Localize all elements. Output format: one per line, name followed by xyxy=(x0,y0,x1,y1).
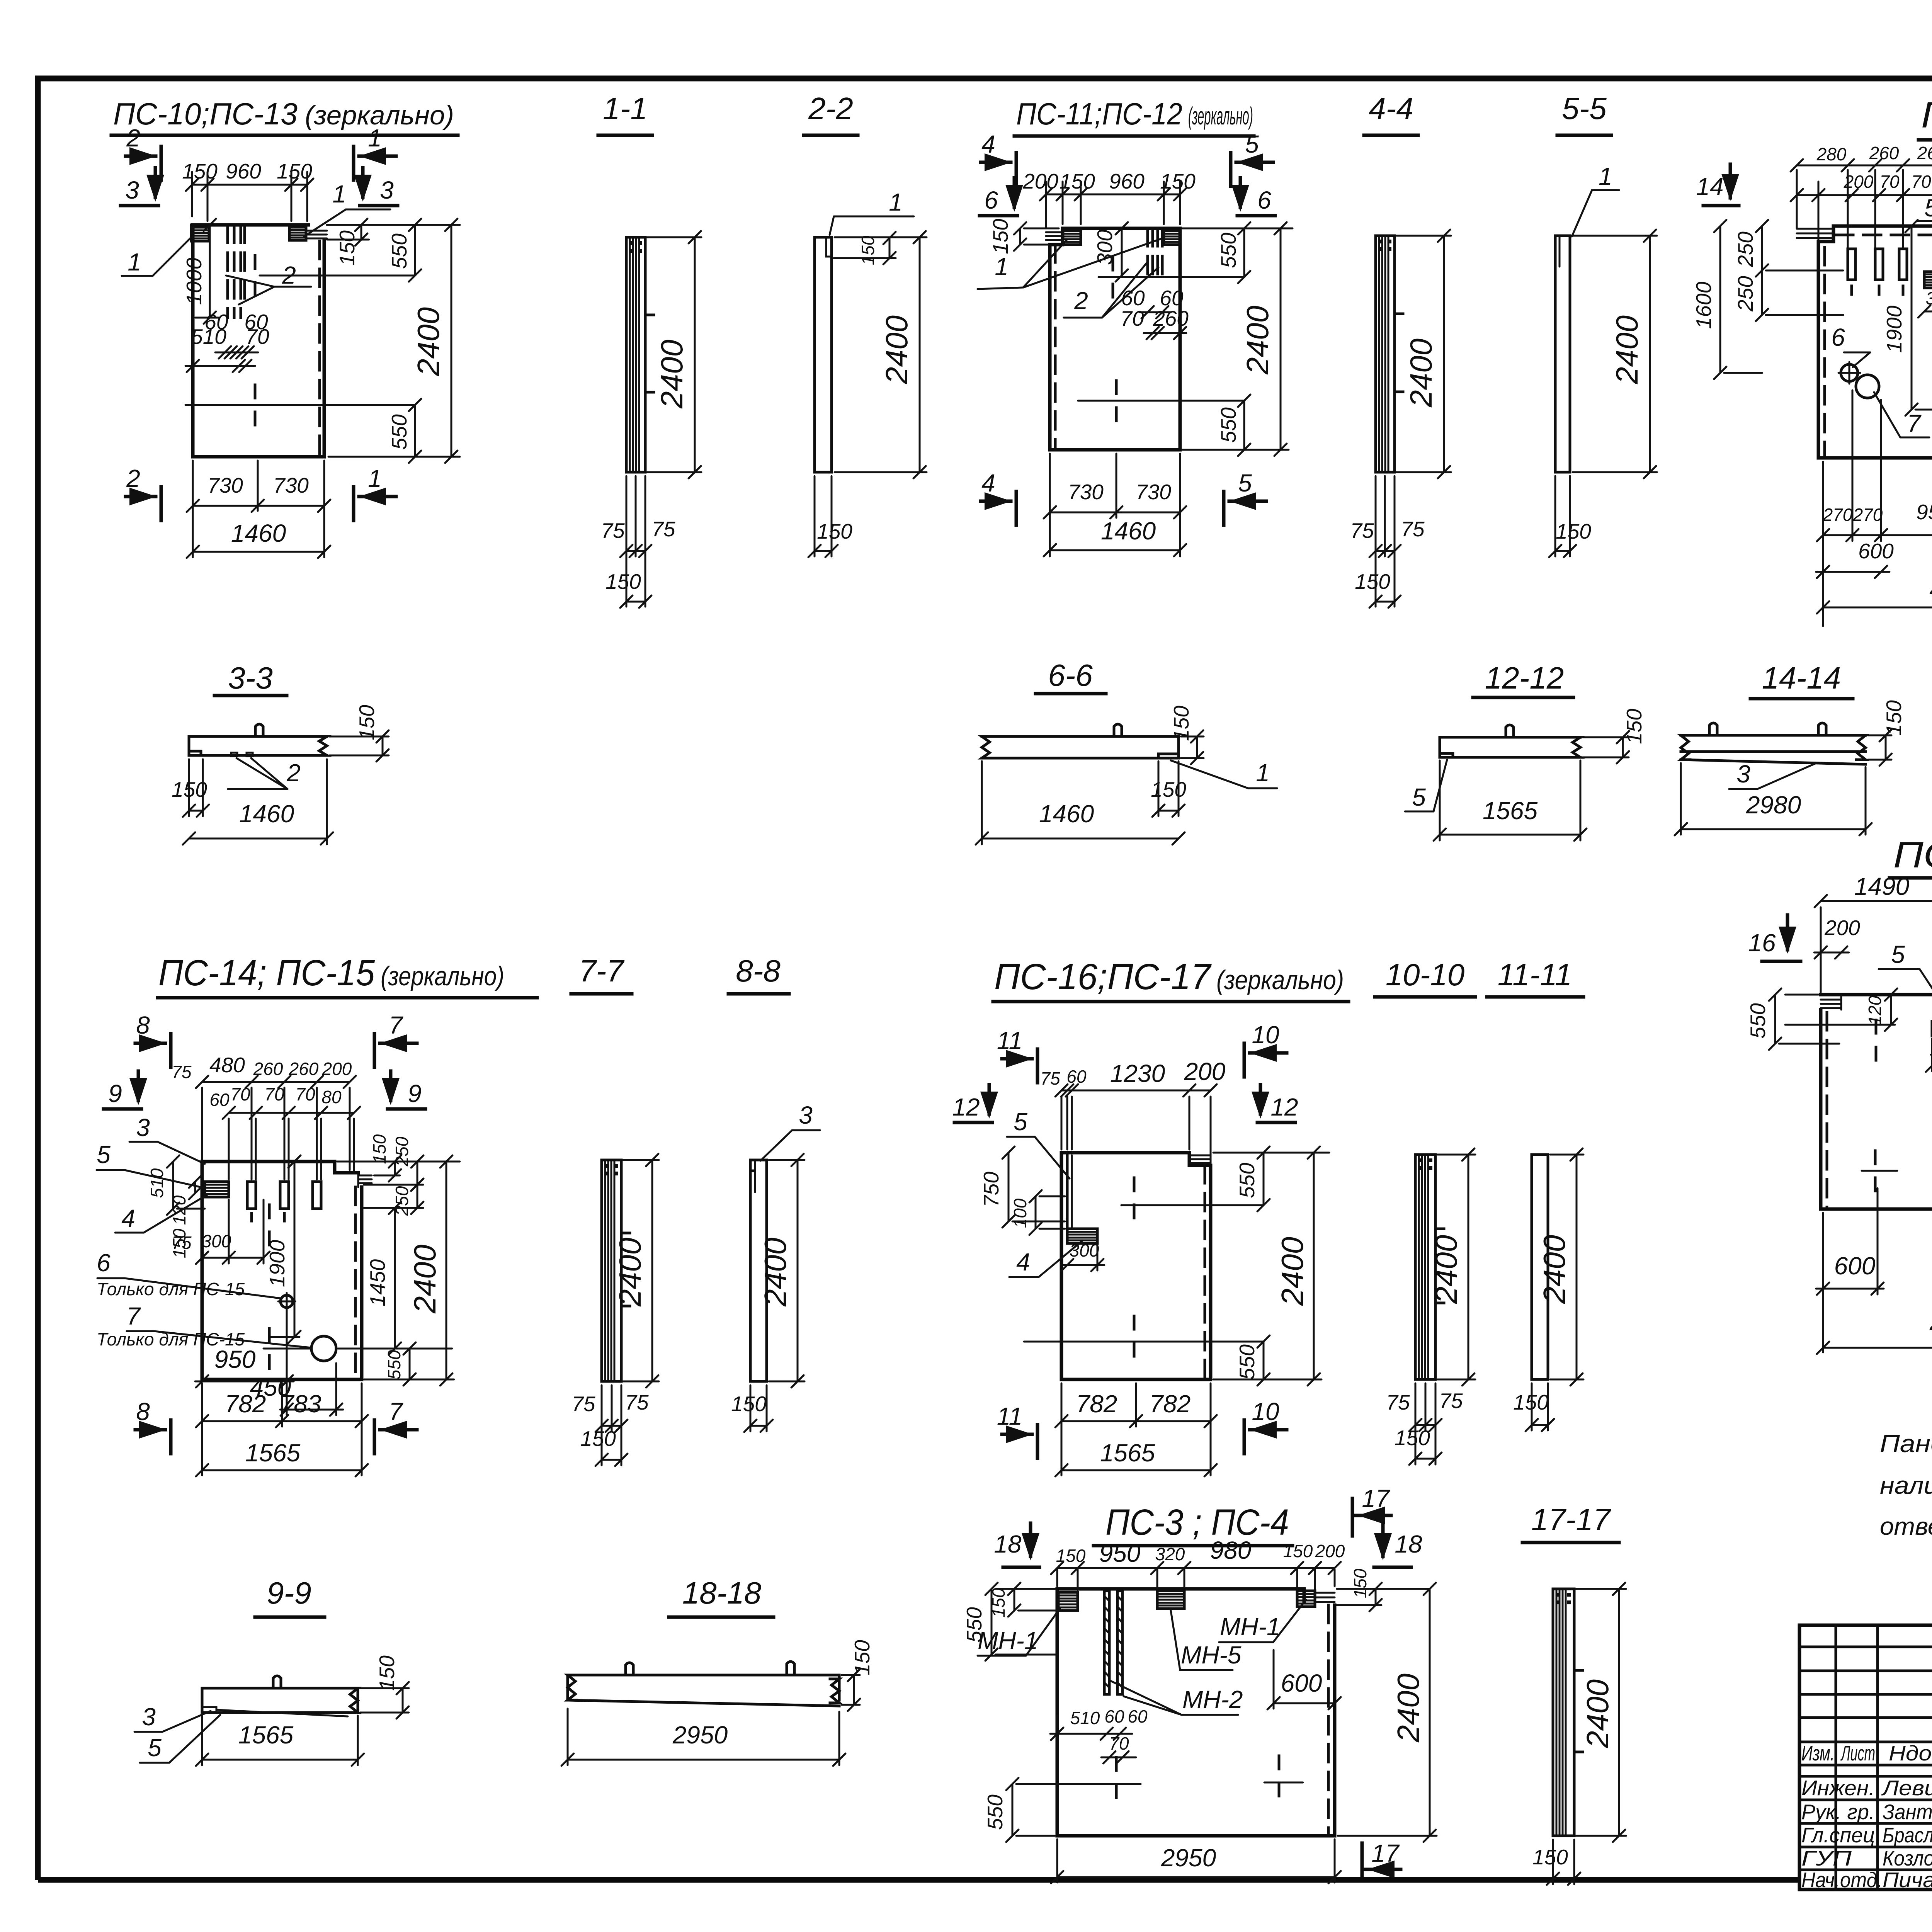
leader 4 ПС-14 xyxy=(115,1195,207,1233)
svg-text:1: 1 xyxy=(995,253,1009,281)
svg-text:1: 1 xyxy=(889,188,903,216)
svg-text:550: 550 xyxy=(983,1794,1007,1830)
panel ПС-14 outline xyxy=(202,1162,362,1379)
svg-text:150: 150 xyxy=(1882,700,1906,736)
svg-text:Пичахчи: Пичахчи xyxy=(1883,1868,1932,1892)
section 5-5 dim 2400 xyxy=(1573,230,1657,478)
hidden line right ПС-14 xyxy=(354,1187,357,1379)
svg-text:5: 5 xyxy=(148,1734,162,1762)
slots ПС-18 xyxy=(1848,249,1932,294)
svg-text:(зеркально): (зеркально) xyxy=(1216,965,1344,995)
cut marker 3 top-right xyxy=(354,168,398,206)
hole 7 ПС-18 xyxy=(1856,375,1929,437)
svg-text:2: 2 xyxy=(126,124,140,152)
svg-text:550: 550 xyxy=(1216,233,1240,268)
bottom dim 1460 xyxy=(187,519,330,558)
svg-text:1565: 1565 xyxy=(1483,797,1538,825)
section 7-7 bar xyxy=(602,1160,630,1381)
bottom dims 730 730 xyxy=(187,461,330,557)
svg-text:7-7: 7-7 xyxy=(579,954,624,988)
right dim 2400 xyxy=(328,219,460,463)
svg-text:280: 280 xyxy=(1816,144,1847,164)
section 1-1 dim 2400 xyxy=(647,231,701,478)
cut marker 9 top-left xyxy=(104,1071,147,1109)
section 17-17 dim 150 bottom xyxy=(1532,1840,1580,1885)
section 2-2 dim 150 top xyxy=(834,232,896,265)
top dim row1 ПС-18 xyxy=(1791,138,1932,172)
top dims 60 70 70 70 80 ПС-14 xyxy=(209,1084,360,1119)
note text line 3 xyxy=(1880,1512,1932,1540)
bottom dims 600 600 ПС-19 xyxy=(1816,1188,1932,1352)
svg-text:730: 730 xyxy=(207,473,243,497)
section 17-17 bar xyxy=(1553,1589,1583,1836)
svg-text:260: 260 xyxy=(289,1059,319,1079)
svg-text:550: 550 xyxy=(387,233,411,269)
dims 60 60 70 260 ПС-11 xyxy=(1120,286,1189,339)
cut marker 18 left xyxy=(994,1523,1039,1567)
svg-text:Браславский: Браславский xyxy=(1883,1823,1932,1847)
section 8-8 dim 2400 xyxy=(758,1154,804,1388)
svg-text:150: 150 xyxy=(1532,1845,1568,1869)
svg-text:150: 150 xyxy=(1622,709,1646,744)
svg-text:2980: 2980 xyxy=(1929,1308,1932,1335)
revision header Изм Лист Ндокум Подп Дата xyxy=(1801,1741,1932,1765)
svg-text:2: 2 xyxy=(282,261,296,289)
svg-text:11-11: 11-11 xyxy=(1498,957,1572,992)
svg-text:5: 5 xyxy=(1238,469,1252,497)
svg-text:75: 75 xyxy=(1350,519,1374,543)
cut marker 3 top-left xyxy=(121,168,164,206)
svg-text:11: 11 xyxy=(997,1027,1022,1054)
svg-text:950: 950 xyxy=(1916,500,1932,524)
svg-text:150: 150 xyxy=(1060,169,1095,193)
leader 1 left anchor plate xyxy=(122,236,192,276)
svg-text:550: 550 xyxy=(387,414,411,450)
anchor loops ПС-3 xyxy=(1315,1593,1335,1602)
center crosses ПС-16 xyxy=(1024,1178,1264,1356)
svg-text:200: 200 xyxy=(322,1059,352,1079)
svg-text:17: 17 xyxy=(1362,1485,1390,1512)
section 14-14 dim 150 rot xyxy=(1868,700,1906,766)
svg-text:17: 17 xyxy=(1371,1839,1400,1867)
svg-text:150: 150 xyxy=(375,1655,399,1691)
leader 5 ПС-16 xyxy=(1007,1108,1070,1179)
drawing title ПС-11;ПС-12 (зеркально) xyxy=(1014,97,1254,136)
svg-text:1565: 1565 xyxy=(245,1439,301,1467)
svg-text:Изм.: Изм. xyxy=(1801,1741,1835,1765)
hole 7 ПС-14 (ПС-15 only) xyxy=(97,1302,336,1369)
panel ПС-11 outline xyxy=(1050,228,1180,450)
svg-text:1900: 1900 xyxy=(265,1240,289,1287)
svg-text:2400: 2400 xyxy=(879,315,914,384)
svg-text:Рук. гр.: Рук. гр. xyxy=(1801,1800,1875,1824)
svg-text:отверстий.: отверстий. xyxy=(1880,1512,1932,1540)
section 3-3 dim 1460 xyxy=(183,759,333,845)
dim 450 ПС-14 xyxy=(250,1310,343,1416)
svg-text:510: 510 xyxy=(191,325,226,349)
svg-text:3: 3 xyxy=(380,176,394,204)
leader 5 ПС-18 xyxy=(1917,194,1932,267)
center cross ПС-14 xyxy=(268,1205,271,1245)
revision table grid xyxy=(1799,1625,1932,1889)
svg-text:60: 60 xyxy=(209,1090,230,1110)
section 14-14 leader 3 xyxy=(1729,760,1816,789)
top dims 150 960 150 xyxy=(182,159,313,221)
center mark lower ПС-11 xyxy=(1078,381,1244,421)
svg-text:(зеркально): (зеркально) xyxy=(381,961,504,991)
svg-text:960: 960 xyxy=(226,159,261,183)
bottom dim 2980 ПС-19 xyxy=(1817,1308,1932,1354)
svg-text:320: 320 xyxy=(1155,1544,1185,1564)
svg-text:7: 7 xyxy=(1907,410,1922,437)
svg-text:4: 4 xyxy=(981,469,995,497)
section 8-8 leader 3 xyxy=(760,1101,820,1161)
center marks upper ПС-19 xyxy=(1876,1020,1932,1061)
section 4-4 title xyxy=(1364,91,1418,135)
svg-text:18: 18 xyxy=(1395,1530,1422,1558)
svg-text:260: 260 xyxy=(1869,143,1899,163)
hidden line ПС-3 xyxy=(1327,1605,1330,1836)
svg-text:1: 1 xyxy=(1599,162,1612,190)
dims 510 60 60 70 ПС-3 xyxy=(1050,1706,1148,1764)
svg-text:270: 270 xyxy=(1853,505,1883,525)
rebate ПС-16 xyxy=(1067,1153,1072,1229)
center mark lower xyxy=(185,385,415,425)
bottom cut marker 7 xyxy=(374,1398,417,1454)
svg-text:1565: 1565 xyxy=(1100,1439,1155,1467)
svg-text:60: 60 xyxy=(1128,1706,1148,1726)
svg-text:5: 5 xyxy=(1924,194,1932,222)
section 2-2 leader 1 xyxy=(830,188,914,235)
note text line 2 xyxy=(1880,1471,1932,1499)
channels МН-2 ПС-3 xyxy=(1104,1591,1122,1694)
svg-text:75: 75 xyxy=(1439,1389,1463,1413)
section 18-18 bar xyxy=(568,1662,839,1706)
section 4-4 bottom dims xyxy=(1350,476,1425,608)
bottom dim 1460 ПС-11 xyxy=(1044,517,1186,556)
svg-text:3: 3 xyxy=(799,1101,813,1129)
svg-text:9: 9 xyxy=(108,1080,122,1107)
svg-text:2400: 2400 xyxy=(1391,1673,1425,1743)
left dims 250 250 1600 ПС-18 xyxy=(1692,220,1843,379)
svg-text:1460: 1460 xyxy=(231,519,286,547)
section 8-8 bar xyxy=(750,1160,767,1381)
svg-text:250: 250 xyxy=(1733,276,1757,312)
svg-text:980: 980 xyxy=(1210,1536,1252,1564)
svg-text:150: 150 xyxy=(817,519,852,543)
bottom cut marker 11 xyxy=(997,1402,1037,1458)
svg-text:150: 150 xyxy=(988,1588,1009,1617)
anchor plate 1 top-right xyxy=(289,225,306,240)
section 6-6 leader 1 xyxy=(1171,759,1277,788)
svg-text:200: 200 xyxy=(1184,1058,1226,1085)
svg-text:11: 11 xyxy=(997,1402,1022,1430)
svg-text:1: 1 xyxy=(368,124,382,152)
svg-text:75: 75 xyxy=(172,1062,192,1082)
top dim row2 ПС-18 xyxy=(1791,172,1932,201)
svg-text:950: 950 xyxy=(214,1345,256,1373)
svg-text:150: 150 xyxy=(1151,777,1186,801)
leader 5 ПС-19 xyxy=(1879,940,1932,1019)
section 11-11 dim 2400 xyxy=(1537,1148,1583,1386)
section 2-2 title xyxy=(804,91,858,135)
section 17-17 title xyxy=(1522,1502,1619,1543)
svg-text:150: 150 xyxy=(731,1392,767,1416)
hidden top edge dashes ПС-18 xyxy=(1825,235,1932,456)
svg-text:5: 5 xyxy=(1245,130,1259,158)
row ГУП Козловская xyxy=(1801,1846,1932,1870)
section 18-18 title xyxy=(669,1576,774,1617)
left dim 550 lower ПС-3 xyxy=(983,1778,1102,1842)
section 9-9 bar xyxy=(202,1676,358,1716)
svg-text:2-2: 2-2 xyxy=(808,91,853,126)
svg-text:300: 300 xyxy=(1093,230,1117,265)
bottom cut marker 1 xyxy=(354,464,396,520)
drawing title ПС-3 ; ПС-4 xyxy=(1094,1502,1293,1546)
svg-text:16: 16 xyxy=(1748,929,1776,957)
anchor plate 1 top-left xyxy=(191,225,209,241)
cut marker 2 top xyxy=(126,124,161,180)
svg-text:5: 5 xyxy=(1014,1108,1027,1136)
bottom dim 1565 ПС-14 xyxy=(196,1439,368,1476)
panel ПС-18 outline xyxy=(1818,226,1932,458)
svg-text:3: 3 xyxy=(136,1114,150,1141)
svg-text:960: 960 xyxy=(1109,169,1145,193)
svg-text:70: 70 xyxy=(245,325,269,349)
hole 6 ПС-14 (ПС-15 only) xyxy=(97,1249,295,1310)
svg-text:100: 100 xyxy=(1010,1198,1030,1228)
anchor plate ПС-16 xyxy=(1067,1229,1097,1243)
svg-text:2980: 2980 xyxy=(1746,791,1801,819)
svg-text:200: 200 xyxy=(1022,169,1058,193)
svg-text:17-17: 17-17 xyxy=(1531,1502,1611,1537)
svg-text:Инжен.: Инжен. xyxy=(1801,1776,1875,1800)
svg-text:75: 75 xyxy=(651,517,675,541)
svg-text:2400: 2400 xyxy=(1429,1235,1463,1304)
svg-text:10: 10 xyxy=(1252,1398,1279,1425)
svg-text:4-4: 4-4 xyxy=(1369,91,1413,126)
section 3-3 leader 2 xyxy=(228,758,301,789)
panel ПС-3 outline xyxy=(1057,1589,1335,1836)
dims 60 60 510 70 xyxy=(185,310,269,372)
cut marker 17 bottom xyxy=(1362,1839,1401,1879)
svg-text:70: 70 xyxy=(1911,172,1931,192)
section 6-6 dim 150 under xyxy=(1151,761,1186,817)
right dims ПС-14 xyxy=(337,1134,460,1386)
panel ПС-16 outline xyxy=(1061,1153,1211,1379)
section 11-11 title xyxy=(1487,957,1583,997)
row Инжен Левина xyxy=(1801,1776,1932,1800)
svg-text:6: 6 xyxy=(984,186,998,214)
anchor loops ПС-16 xyxy=(1189,1155,1211,1163)
svg-text:4: 4 xyxy=(121,1204,135,1232)
svg-text:ПС-3 ; ПС-4: ПС-3 ; ПС-4 xyxy=(1105,1502,1289,1543)
leader 3 ПС-14 xyxy=(129,1114,205,1164)
section 14-14 title xyxy=(1750,661,1853,699)
svg-text:ПС-14; ПС-15: ПС-14; ПС-15 xyxy=(158,952,375,993)
svg-text:2400: 2400 xyxy=(1275,1237,1310,1306)
svg-text:950: 950 xyxy=(1099,1539,1141,1567)
svg-text:510: 510 xyxy=(147,1168,167,1198)
cut marker 4 top xyxy=(981,130,1016,186)
slots ПС-14 xyxy=(247,1182,321,1221)
cut marker 16 top-left xyxy=(1748,915,1801,961)
svg-text:12: 12 xyxy=(1270,1093,1298,1121)
section 9-9 leaders 3 5 xyxy=(134,1703,220,1763)
title block outer frame xyxy=(1799,1625,1932,1889)
svg-text:8: 8 xyxy=(136,1398,150,1425)
svg-text:(зеркально): (зеркально) xyxy=(1188,102,1253,130)
section 2-2 dim 150 bottom xyxy=(808,476,852,557)
section 11-11 bar xyxy=(1532,1155,1548,1379)
right dim 550 upper ПС-11 xyxy=(1182,222,1293,283)
dims 300 300 ПС-18 xyxy=(1918,288,1932,318)
svg-text:Только для ПС-15: Только для ПС-15 xyxy=(97,1279,245,1299)
dim 1900 ПС-14 xyxy=(265,1155,301,1343)
svg-text:4: 4 xyxy=(981,130,995,158)
dim 600 ПС-3 xyxy=(1267,1650,1341,1709)
bottom cut marker 4 xyxy=(981,469,1016,525)
svg-text:2400: 2400 xyxy=(655,340,689,409)
leader 1 right anchor plate xyxy=(304,180,390,236)
svg-text:Нач.отд.: Нач.отд. xyxy=(1801,1868,1883,1892)
svg-text:550: 550 xyxy=(1235,1344,1259,1380)
svg-text:70: 70 xyxy=(295,1084,315,1104)
svg-text:120: 120 xyxy=(169,1195,189,1225)
dims 75 300 ПС-14 xyxy=(172,1200,270,1264)
svg-text:150: 150 xyxy=(1160,169,1196,193)
svg-text:1460: 1460 xyxy=(1101,517,1156,545)
svg-text:1900: 1900 xyxy=(1882,305,1906,353)
right dims 550 2400 550 ПС-16 xyxy=(1213,1146,1329,1386)
leader 4 ПС-16 xyxy=(1009,1241,1082,1277)
section 5-5 dim 150 bottom xyxy=(1549,476,1591,557)
leader 1 ПС-11 xyxy=(978,239,1161,289)
drawing title ПС-19 xyxy=(1889,835,1932,878)
svg-text:75: 75 xyxy=(601,519,625,543)
svg-text:480: 480 xyxy=(209,1053,245,1077)
svg-text:550: 550 xyxy=(1235,1163,1259,1198)
top dims 75 60 1230 200 ПС-16 xyxy=(1040,1058,1225,1163)
bottom dims 782 783 ПС-14 xyxy=(196,1383,368,1475)
svg-text:550: 550 xyxy=(1746,1003,1770,1039)
svg-text:783: 783 xyxy=(280,1390,321,1418)
svg-text:МН-1: МН-1 xyxy=(1220,1613,1280,1641)
right dim 150 xyxy=(327,219,369,266)
section 8-8 dim 150 bottom xyxy=(731,1385,773,1432)
svg-text:10-10: 10-10 xyxy=(1386,957,1465,992)
svg-text:150: 150 xyxy=(988,219,1012,254)
svg-text:1: 1 xyxy=(332,180,346,208)
svg-text:75: 75 xyxy=(172,1233,192,1253)
svg-text:150: 150 xyxy=(850,1640,874,1675)
right dim 2400 ПС-11 xyxy=(1182,222,1289,456)
drawing title ПС-18 xyxy=(1918,95,1932,140)
cut marker 10 top xyxy=(1244,1021,1287,1077)
cut marker 6 top-left xyxy=(980,178,1023,216)
anchor plates МН-1 МН-5 МН-1 ПС-3 xyxy=(1058,1591,1315,1611)
drawing title ПС-16;ПС-17 (зеркально) xyxy=(993,956,1349,1002)
hidden channel lines ПС-10 xyxy=(228,225,320,457)
section 10-10 title xyxy=(1375,957,1475,997)
right dim 550 lower ПС-11 xyxy=(1216,395,1250,456)
svg-text:250: 250 xyxy=(1733,231,1757,267)
svg-text:150: 150 xyxy=(858,235,878,265)
svg-text:150: 150 xyxy=(369,1134,389,1164)
section 17-17 dim 2400 xyxy=(1576,1583,1626,1842)
section 6-6 bar xyxy=(982,724,1179,758)
svg-text:2400: 2400 xyxy=(1240,306,1275,375)
svg-text:70: 70 xyxy=(264,1084,284,1104)
anchor loops right ПС-14 xyxy=(358,1173,372,1187)
cut marker 7 top xyxy=(374,1011,417,1067)
cut marker 6 top-right xyxy=(1231,178,1275,216)
svg-text:200: 200 xyxy=(1315,1541,1345,1561)
svg-text:260: 260 xyxy=(1917,143,1932,163)
svg-text:2950: 2950 xyxy=(1161,1844,1216,1872)
anchor loops left ПС-11 xyxy=(1046,232,1063,240)
svg-text:2400: 2400 xyxy=(613,1238,647,1307)
svg-text:7: 7 xyxy=(389,1011,403,1039)
svg-text:250: 250 xyxy=(392,1136,412,1167)
anchor loops top-left ПС-18 xyxy=(1797,229,1833,238)
svg-text:1600: 1600 xyxy=(1692,281,1716,329)
section 10-10 dim 2400 xyxy=(1429,1148,1475,1386)
svg-text:2: 2 xyxy=(286,759,301,787)
svg-text:1: 1 xyxy=(1256,759,1270,787)
cut marker 9 top-right xyxy=(382,1071,425,1109)
svg-text:2400: 2400 xyxy=(1404,338,1438,408)
top dims 75 480 260 260 200 ПС-14 xyxy=(172,1053,356,1088)
bottom dim 2980 ПС-18 xyxy=(1817,572,1932,614)
anchor plate left ПС-14 xyxy=(205,1182,229,1197)
bottom dims 270 270 950 1490 ПС-18 xyxy=(1817,390,1932,626)
section 11-11 dim 150 bottom xyxy=(1513,1383,1554,1431)
svg-text:550: 550 xyxy=(384,1350,404,1379)
svg-text:600: 600 xyxy=(1834,1252,1876,1280)
right dim 550 upper xyxy=(327,219,460,282)
svg-text:1565: 1565 xyxy=(238,1721,294,1749)
row Гл спец Браславский xyxy=(1801,1823,1932,1847)
svg-text:1490: 1490 xyxy=(1854,872,1910,900)
svg-text:60: 60 xyxy=(1104,1706,1124,1726)
svg-text:3: 3 xyxy=(125,176,139,204)
ext lines top ПС-14 xyxy=(202,1088,354,1179)
bottom cut marker 2 xyxy=(126,464,161,520)
section 18-18 dim 2950 xyxy=(561,1709,845,1766)
dim 950 ПС-14 xyxy=(195,1345,294,1388)
svg-text:1460: 1460 xyxy=(1039,800,1094,828)
svg-text:18: 18 xyxy=(994,1530,1022,1558)
svg-text:14: 14 xyxy=(1696,173,1723,201)
svg-text:Козловская: Козловская xyxy=(1883,1846,1932,1870)
dim 1900 ПС-18 xyxy=(1882,220,1932,416)
svg-text:782: 782 xyxy=(1076,1390,1117,1418)
svg-text:8-8: 8-8 xyxy=(736,954,781,988)
dim 120 ПС-19 xyxy=(1785,988,1897,1031)
svg-text:ПС-16;ПС-17: ПС-16;ПС-17 xyxy=(994,956,1212,997)
svg-text:7: 7 xyxy=(126,1302,141,1330)
svg-text:3: 3 xyxy=(1736,760,1750,788)
section 3-3 title xyxy=(214,661,287,696)
svg-text:60: 60 xyxy=(1066,1066,1087,1087)
svg-text:150: 150 xyxy=(335,230,359,266)
section 4-4 dim 2400 xyxy=(1396,230,1451,478)
leader 2 channels xyxy=(226,261,311,304)
svg-text:600: 600 xyxy=(1858,539,1894,563)
svg-text:730: 730 xyxy=(273,473,309,497)
svg-text:75: 75 xyxy=(1401,517,1425,541)
